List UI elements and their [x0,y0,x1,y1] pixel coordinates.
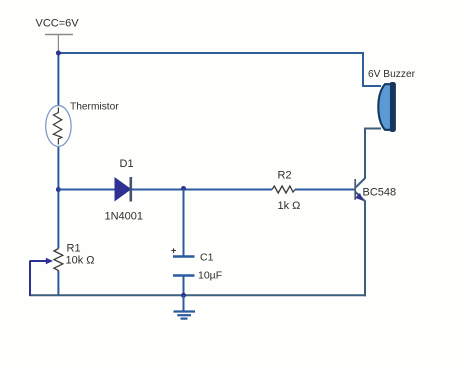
svg-text:10µF: 10µF [198,270,222,282]
wire: right top vertical [362,52,364,86]
wire: left vertical upper [57,53,59,106]
svg-text:BC548: BC548 [363,187,397,199]
svg-text:10k Ω: 10k Ω [66,255,95,267]
VCC terminal bar [45,35,73,52]
svg-text:+: + [171,246,176,256]
svg-text:VCC=6V: VCC=6V [36,18,80,30]
wire: C1 branch upper [183,189,185,256]
svg-text:Thermistor: Thermistor [70,102,119,113]
wire: middle left segment [58,189,115,191]
wire: ground lead [183,295,185,311]
wire: buzzer top lead [362,85,381,87]
wiper arrowhead [46,258,53,264]
svg-text:D1: D1 [120,158,134,170]
wire: emitter vertical [364,201,366,297]
node D: junction at bottom rail [181,293,186,298]
node B: junction left-middle [56,187,61,192]
svg-text:C1: C1 [200,252,214,264]
ground [174,312,196,319]
wire: left vertical lower [57,271,59,296]
wire: base wire [295,189,355,191]
svg-text:6V Buzzer: 6V Buzzer [368,69,416,80]
wire: buzzer bottom lead [364,128,381,130]
thermistor TH1 [46,106,71,147]
resistor R2 [272,186,295,193]
wire: C1 branch lower [183,276,185,296]
node C: junction at C1 branch [181,186,186,191]
svg-text:R2: R2 [278,170,292,182]
buzzer BZ1 [378,83,395,132]
svg-text:1N4001: 1N4001 [105,211,144,223]
wire: wiper arrow horizontal [30,260,47,262]
wire: wiper vertical [29,261,31,297]
potentiometer R1 [54,249,63,272]
wire: middle right of diode [131,189,272,191]
capacitor C1 [173,257,195,276]
transistor Q1 BC548 [355,178,365,201]
node A: junction top-left [56,51,61,56]
wire: collector vertical [364,129,366,179]
svg-text:R1: R1 [67,243,81,255]
diode D1 [115,177,131,202]
svg-text:1k Ω: 1k Ω [278,200,301,212]
wire: top rail [58,52,363,54]
wire: bottom rail [30,294,367,296]
wire: left vertical mid [57,147,59,249]
